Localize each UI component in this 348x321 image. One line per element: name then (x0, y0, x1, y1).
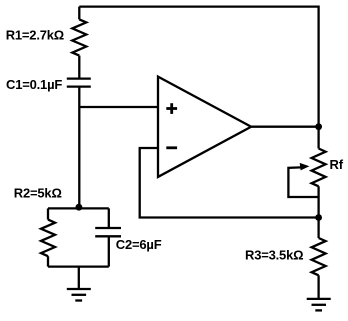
resistor R2 (41, 208, 55, 266)
node R2 C2 junction (76, 204, 83, 211)
wire top rail (79, 7, 318, 127)
capacitor C2 (95, 208, 121, 266)
svg-text:C2=6µF: C2=6µF (116, 237, 162, 252)
label Rf (330, 157, 344, 172)
wire output (251, 126, 318, 128)
svg-text:R2=5kΩ: R2=5kΩ (14, 186, 62, 201)
label C1=0.1uF (6, 77, 62, 92)
ground right (307, 299, 331, 311)
op-amp U1 (158, 77, 251, 177)
wire parallel box top (48, 207, 109, 209)
wire parallel box bottom (48, 265, 109, 267)
svg-text:R1=2.7kΩ: R1=2.7kΩ (6, 27, 64, 42)
label R3=3.5kOhm (245, 247, 303, 262)
wire ground tap (78, 267, 80, 289)
node feedback junction (315, 214, 322, 221)
ground left (67, 289, 91, 301)
rheostat Rf (288, 127, 325, 218)
wire feedback (140, 148, 319, 218)
label R1=2.7kOhm (6, 27, 64, 42)
label C2=6uF (116, 237, 162, 252)
capacitor C1 (67, 79, 91, 87)
svg-text:R3=3.5kΩ: R3=3.5kΩ (245, 247, 303, 262)
resistor R3 (312, 218, 326, 299)
svg-text:C1=0.1µF: C1=0.1µF (6, 77, 62, 92)
wire left column (78, 87, 80, 209)
wire to noninverting input (79, 106, 158, 108)
resistor R1 (72, 7, 86, 79)
svg-text:Rf: Rf (330, 157, 344, 172)
label R2=5kOhm (14, 186, 62, 201)
node output junction (315, 123, 322, 130)
